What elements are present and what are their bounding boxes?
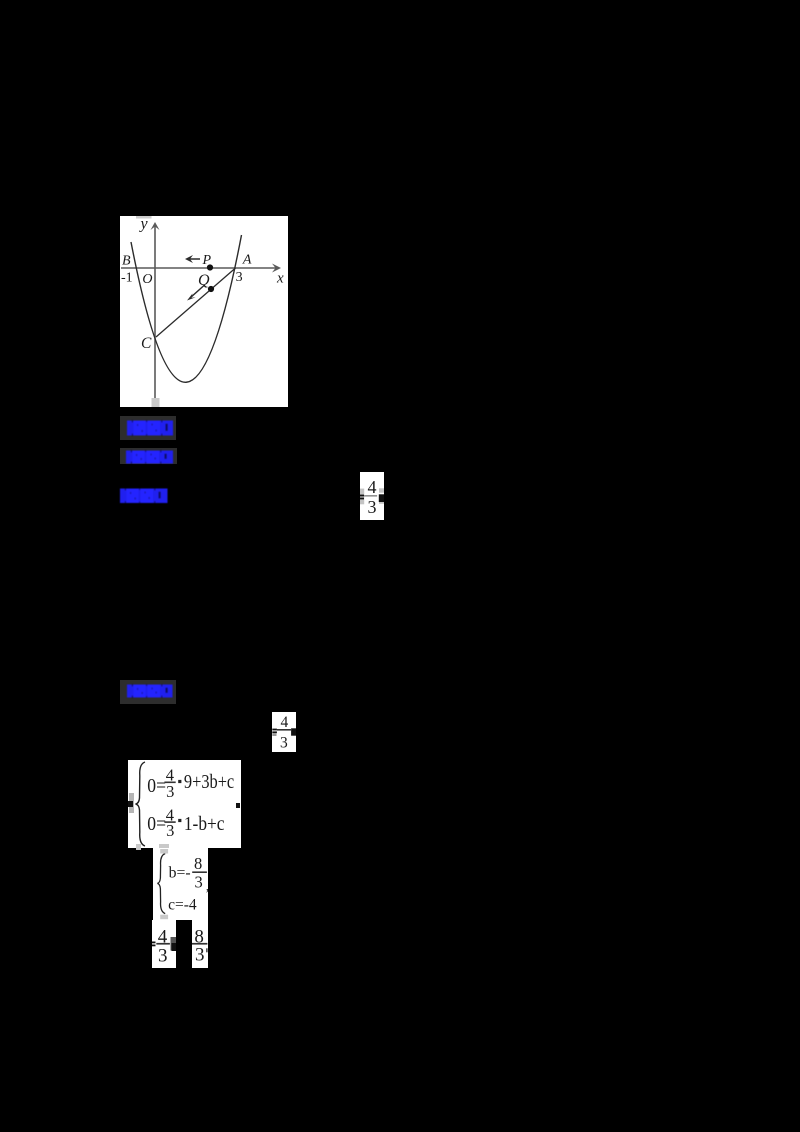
svg-text:C: C (141, 335, 152, 352)
svg-text:4: 4 (281, 714, 289, 731)
svg-text:c=-4: c=-4 (168, 897, 197, 914)
svg-text:3: 3 (158, 945, 168, 966)
svg-text:4: 4 (157, 926, 167, 947)
svg-text:b=-: b=- (168, 865, 190, 882)
svg-text:y: y (139, 216, 149, 233)
svg-text:B: B (122, 253, 131, 268)
svg-text:3: 3 (166, 820, 174, 839)
svg-text:3: 3 (194, 873, 202, 892)
svg-text:0=: 0= (147, 813, 166, 835)
svg-text:O: O (142, 272, 152, 287)
svg-text:8: 8 (194, 854, 202, 873)
svg-text:Q: Q (198, 272, 210, 289)
svg-text:9+3b+c: 9+3b+c (183, 771, 233, 793)
svg-text:3: 3 (368, 497, 377, 517)
svg-text:x: x (276, 271, 284, 287)
svg-text:P: P (202, 253, 212, 268)
svg-text:3: 3 (236, 270, 243, 285)
svg-text:3: 3 (280, 735, 288, 752)
svg-text:-1: -1 (121, 270, 133, 285)
svg-text:3: 3 (195, 945, 205, 966)
svg-text:0=: 0= (147, 775, 166, 797)
svg-text:3: 3 (166, 781, 174, 800)
svg-text:,: , (205, 880, 207, 895)
svg-text:1-b+c: 1-b+c (183, 813, 224, 835)
svg-text:A: A (242, 252, 252, 267)
svg-text:4: 4 (368, 477, 377, 497)
